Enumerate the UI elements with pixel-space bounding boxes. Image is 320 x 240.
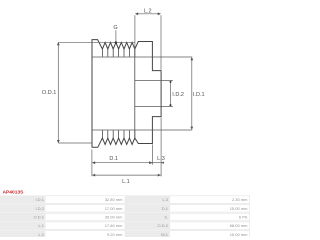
- table row 3: [0, 213, 250, 221]
- svg-text:I.D.1: I.D.1: [36, 197, 45, 202]
- svg-text:L.1: L.1: [38, 223, 44, 228]
- svg-text:I.D.1: I.D.1: [193, 92, 205, 98]
- dimension O.D.1: [57, 42, 135, 143]
- dimension D.1: [92, 144, 152, 176]
- svg-text:15.00 mm: 15.00 mm: [230, 206, 248, 211]
- pulley outer profile: [92, 40, 161, 148]
- svg-text:O.D.2: O.D.2: [158, 223, 169, 228]
- svg-text:W.1: W.1: [161, 232, 169, 237]
- svg-text:15.00 mm: 15.00 mm: [230, 232, 248, 237]
- groove root stems top: [102, 49, 134, 57]
- svg-text:L.2: L.2: [38, 232, 44, 237]
- dimension L.3: [150, 118, 164, 177]
- svg-text:D.1: D.1: [109, 156, 118, 162]
- bore line bottom / I.D.2 witness: [135, 105, 173, 107]
- svg-text:b.: b.: [165, 215, 168, 220]
- svg-text:6 PK: 6 PK: [239, 215, 248, 220]
- svg-text:68.00 mm: 68.00 mm: [230, 223, 248, 228]
- svg-text:39.00 mm: 39.00 mm: [105, 215, 123, 220]
- table row 1: [0, 196, 250, 204]
- svg-text:I.D.2: I.D.2: [36, 206, 45, 211]
- svg-text:2.30 mm: 2.30 mm: [232, 197, 248, 202]
- table row 5: [0, 231, 250, 239]
- svg-text:9.20 mm: 9.20 mm: [107, 232, 123, 237]
- table row 4: [0, 222, 250, 230]
- svg-text:L.1: L.1: [122, 179, 130, 185]
- dimension L.2: [135, 12, 161, 69]
- groove root line bottom / I.D.1 bottom witness: [92, 129, 192, 131]
- svg-text:G: G: [113, 25, 117, 31]
- groove root stems bottom: [102, 130, 134, 138]
- svg-text:L.3: L.3: [162, 197, 168, 202]
- dimension I.D.1: [190, 57, 193, 130]
- table row 2: [0, 205, 250, 213]
- svg-text:32.80 mm: 32.80 mm: [105, 197, 123, 202]
- svg-text:D.1: D.1: [162, 206, 169, 211]
- dimension I.D.2: [170, 81, 172, 106]
- svg-text:O.D.1: O.D.1: [34, 215, 45, 220]
- label G with leader: [113, 25, 117, 44]
- internal hub boundary vertical: [134, 49, 136, 138]
- svg-text:L.2: L.2: [144, 9, 152, 15]
- svg-text:L.3: L.3: [157, 156, 165, 162]
- groove root line top / I.D.1 top witness: [92, 56, 192, 58]
- svg-text:17.00 mm: 17.00 mm: [105, 206, 123, 211]
- svg-text:AP4013S: AP4013S: [3, 190, 25, 196]
- svg-text:I.D.2: I.D.2: [172, 92, 184, 98]
- bore line top / I.D.2 witness: [135, 80, 173, 82]
- dimension L.1: [92, 174, 161, 177]
- svg-text:17.60 mm: 17.60 mm: [105, 223, 123, 228]
- svg-text:O.D.1: O.D.1: [42, 90, 56, 96]
